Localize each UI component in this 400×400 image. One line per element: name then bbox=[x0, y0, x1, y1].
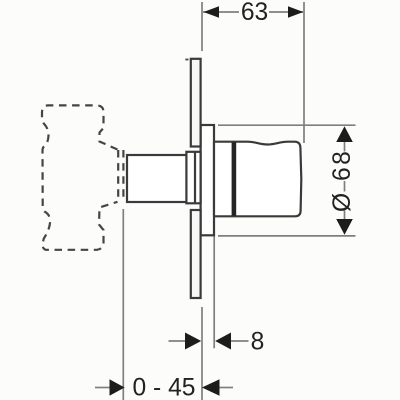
svg-text:8: 8 bbox=[251, 329, 265, 356]
svg-text:0 - 45: 0 - 45 bbox=[133, 374, 196, 400]
svg-text:Ø 68: Ø 68 bbox=[329, 149, 356, 212]
svg-text:63: 63 bbox=[241, 0, 268, 26]
